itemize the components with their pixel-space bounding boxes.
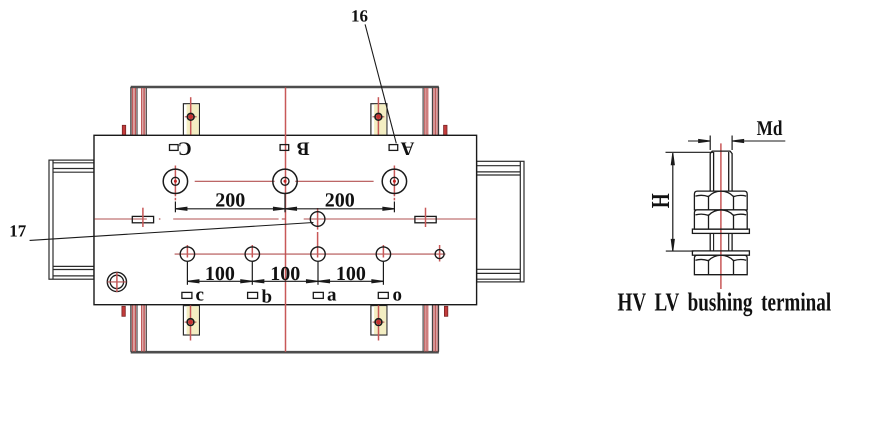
bottom nut (694, 255, 747, 275)
svg-text:200: 200 (325, 189, 355, 211)
tank top edge (131, 86, 439, 89)
lifting lug top-right (371, 97, 387, 136)
nut 1 (694, 191, 747, 210)
corrugated fins top-right (423, 88, 437, 135)
valve tick top-left (122, 125, 125, 137)
oil plug (item 17) (310, 212, 325, 227)
valve tick bottom-left (122, 306, 125, 316)
svg-text:100: 100 (270, 263, 300, 285)
LV row center line (175, 253, 446, 255)
earthing bolt (107, 272, 126, 292)
tank left wall upper (130, 87, 132, 135)
lifting lug bottom-right (371, 303, 387, 341)
HV bushing C (163, 166, 187, 201)
HV row center line (195, 180, 275, 182)
LV bushing b (245, 245, 259, 261)
svg-text:c: c (196, 285, 204, 306)
stud between washers (710, 233, 732, 251)
svg-text:a: a (327, 285, 337, 306)
tank left wall lower (130, 305, 132, 352)
HV bushing B (273, 169, 297, 193)
svg-text:17: 17 (9, 222, 27, 241)
washer 1 (692, 229, 749, 233)
svg-text:B: B (297, 138, 310, 159)
valve tick top-right (444, 125, 447, 137)
cover plate (94, 135, 477, 304)
tank right wall upper (438, 87, 440, 135)
LV bushing o (376, 245, 390, 261)
LV bushing a (311, 208, 325, 261)
svg-text:HV LV bushing terminal: HV LV bushing terminal (618, 288, 832, 317)
corrugated fins top-left (132, 88, 146, 135)
svg-text:16: 16 (351, 7, 368, 26)
marker square o (378, 292, 388, 298)
lifting lug top-left (183, 97, 199, 136)
vertical center line (285, 88, 287, 352)
horizontal center line segments (95, 218, 147, 220)
svg-text:b: b (262, 286, 273, 307)
svg-text:A: A (400, 138, 414, 159)
corrugated fins bottom-left (132, 305, 146, 352)
marker square b (248, 292, 258, 298)
LV bushing c (180, 245, 194, 261)
marker square c (182, 292, 192, 298)
leader 17 (30, 223, 314, 241)
left radiator bank (49, 160, 94, 279)
LV dimension 100x3 (187, 262, 383, 285)
marker square C (170, 145, 179, 151)
svg-text:100: 100 (336, 263, 366, 285)
stud upper (710, 151, 732, 191)
svg-text:H: H (646, 193, 675, 208)
valve tick bottom-right (444, 306, 447, 316)
nut 2 (694, 210, 747, 229)
leader 16 (365, 24, 396, 143)
H dimension (666, 152, 714, 251)
svg-text:Md: Md (757, 116, 783, 140)
svg-text:C: C (178, 138, 192, 159)
svg-text:100: 100 (205, 263, 235, 285)
Md dimension (688, 136, 785, 151)
marker square a (313, 292, 323, 298)
marker square A (389, 145, 398, 151)
right radiator bank (477, 161, 524, 282)
tank bottom edge (131, 351, 439, 354)
washer 2 (692, 251, 749, 255)
tank right wall lower (438, 305, 440, 352)
svg-text:o: o (393, 285, 403, 306)
HV bushing A (382, 166, 406, 201)
slot left (132, 208, 153, 227)
small hole right of o (435, 245, 444, 262)
lifting lug bottom-left (183, 303, 199, 341)
svg-text:200: 200 (215, 189, 245, 211)
slot right (415, 208, 436, 227)
HV dimension 200+200 (175, 194, 394, 212)
corrugated fins bottom-right (423, 305, 437, 352)
marker square B (280, 145, 289, 151)
terminal center line (720, 143, 722, 289)
